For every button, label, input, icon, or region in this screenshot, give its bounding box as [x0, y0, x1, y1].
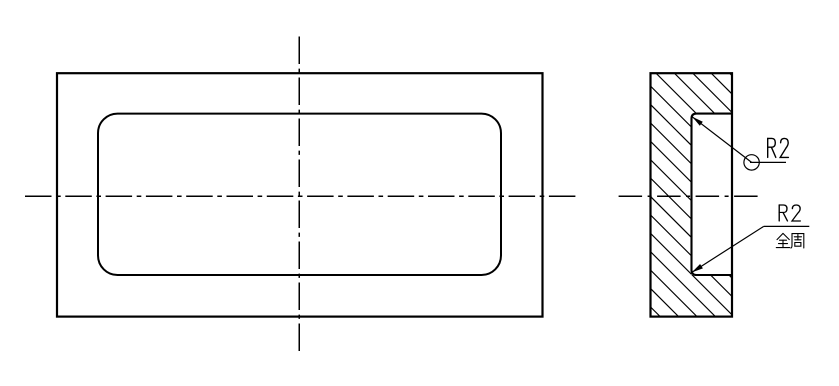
- front view outer outline: [57, 73, 543, 316]
- leader line to top fillet (R2): [692, 117, 751, 163]
- landing line R2 top label: [750, 161, 786, 163]
- landing line R2 bottom label: [764, 225, 810, 227]
- section hatching lines: [640, 0, 745, 386]
- text "quan" 全: [776, 233, 789, 247]
- text "zhou" 周: [791, 234, 804, 248]
- section outer outline: [651, 73, 733, 316]
- arrowhead top fillet: [692, 117, 703, 126]
- vertical centerline: [298, 37, 300, 352]
- horizontal centerline section view: [619, 195, 758, 197]
- horizontal centerline front view: [25, 195, 575, 197]
- leader line to bottom fillet (R2 all around): [692, 226, 764, 272]
- section recess profile: [692, 114, 733, 275]
- text R2 (bottom label): [779, 205, 800, 221]
- arrowhead bottom fillet: [692, 264, 703, 272]
- text R2 (top label, hand drawn CAD glyphs): [768, 138, 789, 157]
- front view recess outline (rounded rectangle): [98, 114, 501, 275]
- balloon circle R2: [744, 155, 759, 170]
